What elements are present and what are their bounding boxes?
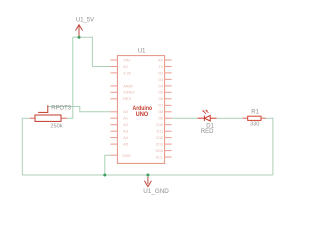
svg-text:AREF: AREF	[123, 84, 134, 88]
net label U1_5V	[76, 17, 95, 24]
svg-text:UNO: UNO	[136, 111, 149, 118]
power symbol U1_5V	[76, 25, 83, 36]
svg-text:D5: D5	[158, 91, 163, 95]
U1 left pin labels	[122, 58, 135, 157]
svg-text:D3: D3	[158, 78, 163, 82]
value 330	[250, 121, 259, 127]
svg-text:330: 330	[250, 121, 259, 127]
svg-text:U1_GND: U1_GND	[143, 188, 169, 195]
svg-text:5V: 5V	[123, 65, 128, 69]
U1 right pin stubs	[165, 60, 172, 157]
svg-text:SCL: SCL	[156, 155, 163, 159]
label U1	[138, 47, 146, 54]
potentiometer RPOT3	[30, 105, 67, 121]
svg-text:D8: D8	[158, 110, 163, 114]
svg-text:D10: D10	[156, 123, 163, 127]
wire W2: 5V junction down-left to RPOT3 right terminal	[67, 37, 79, 118]
wire W4: RPOT3 left terminal down to ground bus	[22, 118, 29, 175]
svg-text:U1: U1	[138, 47, 146, 54]
svg-text:A5: A5	[123, 143, 128, 147]
svg-text:A2: A2	[123, 123, 128, 127]
svg-text:RX: RX	[158, 58, 164, 62]
svg-text:D7: D7	[158, 104, 163, 108]
svg-text:TX: TX	[158, 65, 163, 69]
LED D1	[198, 110, 217, 121]
junction dot: 5V node	[78, 36, 81, 39]
svg-text:D4: D4	[158, 84, 163, 88]
wire W5: ground bus	[22, 174, 273, 176]
svg-text:D9: D9	[158, 117, 163, 121]
svg-text:R1: R1	[251, 110, 259, 116]
U1 right pin labels	[155, 58, 163, 159]
svg-text:IOREF: IOREF	[123, 91, 135, 95]
svg-text:SDA: SDA	[155, 149, 163, 153]
wire W7: U1 D9 pin to LED D1	[172, 117, 198, 119]
svg-text:VIN: VIN	[123, 58, 130, 62]
IC U1 Arduino UNO body	[117, 56, 164, 164]
junction dot: GND pin wire at bus	[103, 174, 106, 177]
svg-text:D13: D13	[156, 143, 163, 147]
wire W8: LED D1 to R1	[217, 117, 243, 119]
svg-text:RES: RES	[123, 97, 131, 101]
label Arduino UNO	[133, 105, 153, 118]
wire W1: 5V junction right to U1 5V pin	[79, 37, 111, 66]
svg-text:RED: RED	[201, 129, 214, 135]
U1 left pin stubs	[110, 60, 117, 155]
svg-text:A0: A0	[123, 110, 128, 114]
wire W3: RPOT3 wiper to U1 A0 pin	[48, 107, 111, 112]
label D1	[206, 124, 214, 130]
ground symbol U1_GND	[144, 177, 151, 187]
svg-text:A3: A3	[123, 130, 128, 134]
svg-text:D6: D6	[158, 97, 163, 101]
svg-text:RPOT3: RPOT3	[51, 105, 71, 112]
svg-text:250k: 250k	[50, 124, 62, 130]
svg-text:A4: A4	[123, 136, 128, 140]
wire W9: R1 down to ground bus	[266, 118, 273, 175]
svg-text:D11: D11	[157, 130, 164, 134]
net label U1_GND	[143, 188, 169, 195]
value RED	[201, 129, 214, 135]
resistor R1	[242, 116, 266, 120]
svg-text:D12: D12	[156, 136, 163, 140]
junction dot: U1_GND symbol at bus	[146, 174, 149, 177]
svg-text:U1_5V: U1_5V	[76, 17, 95, 24]
value 250k	[50, 124, 62, 130]
svg-text:GND: GND	[122, 154, 131, 158]
svg-text:3.3V: 3.3V	[123, 71, 131, 75]
svg-text:D2: D2	[158, 71, 163, 75]
label R1	[251, 110, 259, 116]
wire W6: U1 GND pin to ground bus	[105, 155, 111, 175]
label RPOT3	[51, 105, 71, 112]
LED light arrows	[204, 111, 206, 113]
svg-text:A1: A1	[123, 117, 128, 121]
